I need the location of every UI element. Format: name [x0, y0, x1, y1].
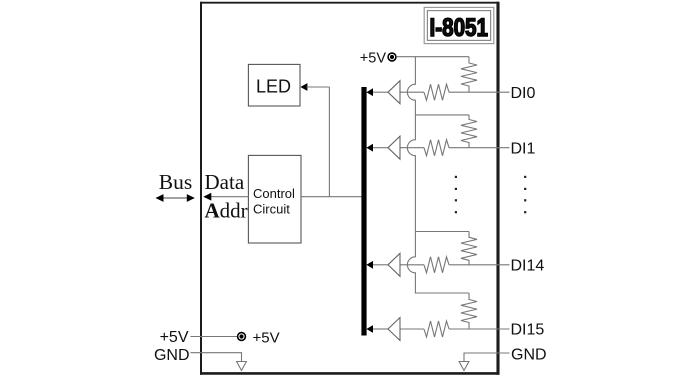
arrowhead DI0 into bus — [366, 88, 373, 96]
wire: +5V bottom line — [191, 336, 238, 338]
svg-text:Circuit: Circuit — [253, 202, 290, 217]
svg-text:Control: Control — [253, 186, 295, 201]
series resistor DI1 — [424, 140, 449, 156]
svg-text:DI14: DI14 — [511, 257, 545, 274]
wire: +5V branch to DI14 pull-up — [415, 231, 469, 233]
wire: +5V feed line — [397, 56, 469, 58]
+5V terminal dot (top) — [388, 53, 396, 61]
I-8051 label box inner — [427, 11, 490, 41]
pull-up resistor DI14 — [461, 232, 477, 265]
+5V vertical rail with hops — [407, 57, 469, 293]
pull-up resistor DI1 — [461, 115, 477, 148]
series resistor DI0 — [424, 84, 449, 100]
series resistor DI14 — [424, 257, 449, 273]
ground symbol (left) — [237, 362, 247, 371]
+5V terminal dot (bottom) — [238, 333, 246, 341]
buffer DI1 — [388, 136, 400, 159]
ellipsis dots (inner) — [455, 176, 457, 214]
svg-text:LED: LED — [256, 77, 291, 97]
svg-text:Addr: Addr — [205, 199, 248, 223]
wire: DI14 line — [373, 264, 388, 266]
svg-text:I-8051: I-8051 — [430, 14, 489, 42]
buffer DI15 — [388, 318, 400, 341]
arrowhead DI1 into bus — [366, 144, 373, 152]
svg-text:DI15: DI15 — [511, 322, 545, 339]
svg-text:+5V: +5V — [253, 330, 280, 347]
svg-text:Bus: Bus — [159, 170, 192, 194]
wire: DI15 line — [373, 328, 388, 330]
wire: GND right line — [464, 353, 510, 362]
module boundary box — [200, 2, 499, 375]
Bus bidirectional arrow — [156, 194, 195, 202]
wire: +5V branch to DI1 pull-up — [415, 114, 469, 116]
internal data bus bar (thick) — [361, 87, 366, 336]
svg-text:DI1: DI1 — [511, 140, 536, 157]
pull-up resistor DI0 — [461, 57, 477, 92]
LED box — [248, 64, 300, 106]
arrowhead at Data/Addr — [203, 193, 211, 201]
wire: GND bottom-left line — [191, 353, 242, 362]
series resistor DI15 — [424, 321, 449, 337]
wire: LED arrow horizontal — [307, 86, 330, 88]
pull-up resistor DI15 — [461, 293, 477, 329]
wire: DI0 line — [373, 91, 388, 93]
I-8051 label box outer — [424, 7, 494, 43]
ground symbol (right) — [459, 362, 469, 371]
svg-text:DI0: DI0 — [511, 85, 536, 102]
wire: LED arrow vertical drop — [328, 87, 330, 197]
svg-text:GND: GND — [511, 347, 547, 364]
ellipsis dots (outer) — [524, 176, 526, 214]
arrowhead DI15 into bus — [366, 325, 373, 333]
wire: DI1 line — [373, 147, 388, 149]
svg-text:GND: GND — [154, 347, 190, 364]
wire: control circuit to Data/Addr arrow — [208, 196, 248, 198]
wire: control circuit to bus bar — [301, 196, 362, 198]
svg-text:+5V: +5V — [160, 329, 189, 346]
arrowhead DI14 into bus — [366, 261, 373, 269]
arrowhead into LED box — [300, 83, 307, 91]
buffer DI14 — [388, 253, 400, 276]
svg-text:+5V: +5V — [360, 51, 387, 67]
control circuit box U1 — [248, 155, 301, 243]
svg-text:Data: Data — [205, 170, 245, 194]
buffer DI0 — [388, 81, 400, 104]
